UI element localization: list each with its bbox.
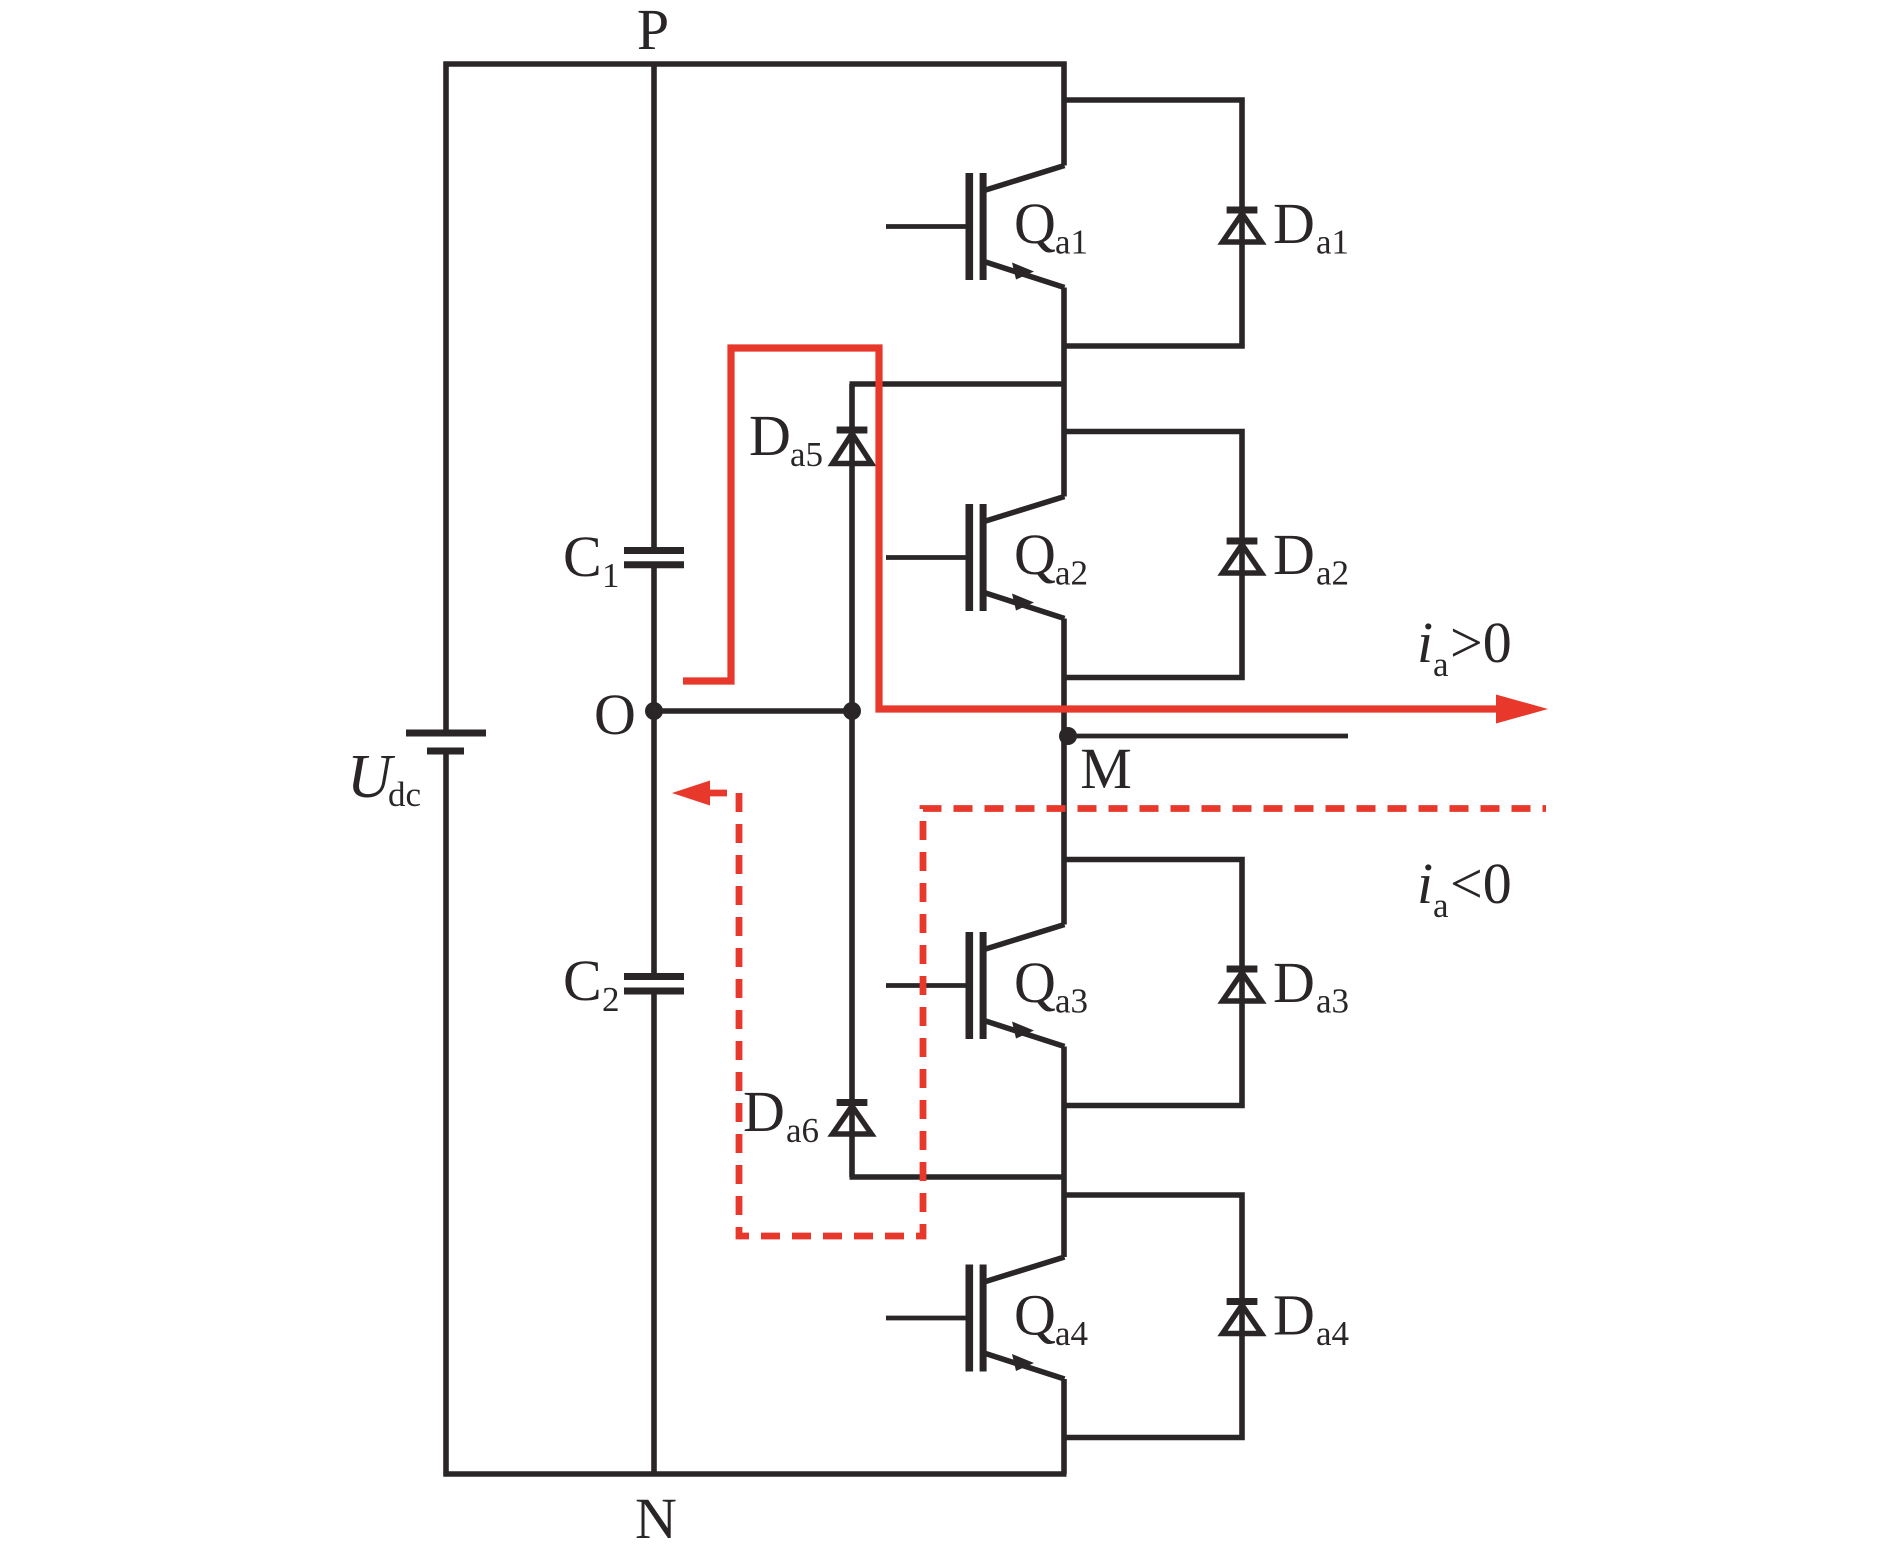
svg-text:>0: >0 bbox=[1450, 610, 1512, 675]
diode Da2 antiparallel loop bbox=[1064, 432, 1262, 678]
capacitor C1 bbox=[624, 551, 684, 565]
junction dot at clamp rail and O wire bbox=[843, 702, 861, 720]
diode Da5 bbox=[833, 430, 872, 464]
label Da2 bbox=[1273, 522, 1349, 593]
svg-text:a3: a3 bbox=[1055, 982, 1088, 1021]
svg-text:2: 2 bbox=[602, 980, 620, 1019]
battery Udc long plate bbox=[406, 730, 486, 737]
wire: main rail Qa1 emitter to Qa2 collector bbox=[1061, 288, 1067, 497]
transistor Qa4 (IGBT) bbox=[886, 1257, 1065, 1379]
svg-text:D: D bbox=[749, 403, 791, 468]
label Qa3 bbox=[1014, 950, 1088, 1021]
label C2 bbox=[563, 948, 620, 1019]
label Da4 bbox=[1273, 1283, 1349, 1354]
wire: top bus P rail bbox=[444, 61, 1067, 67]
wire: output line from node M bbox=[1065, 734, 1348, 739]
svg-text:D: D bbox=[743, 1079, 785, 1144]
wire: middle rail C1 to node O bbox=[651, 565, 657, 711]
svg-text:N: N bbox=[635, 1486, 677, 1549]
wire: left rail upper segment bbox=[443, 62, 449, 731]
wire: clamp rail vertical (Da5-Da6 leg) bbox=[849, 384, 855, 1177]
svg-text:Q: Q bbox=[1014, 1283, 1056, 1348]
diode Da6 bbox=[833, 1103, 872, 1135]
svg-text:C: C bbox=[563, 948, 602, 1013]
label Da5 bbox=[749, 403, 823, 474]
svg-text:D: D bbox=[1273, 191, 1315, 256]
wire: clamp bottom connection to main rail bbox=[850, 1174, 1065, 1180]
label Qa4 bbox=[1014, 1283, 1088, 1354]
label Qa1 bbox=[1014, 191, 1088, 262]
wire: clamp top connection to main rail bbox=[850, 381, 1065, 387]
diode Da3 antiparallel loop bbox=[1064, 860, 1262, 1106]
wire: main rail Qa2 emitter to Qa3 collector bbox=[1061, 619, 1067, 925]
svg-text:i: i bbox=[1417, 610, 1433, 675]
svg-text:a1: a1 bbox=[1055, 223, 1088, 262]
wire: middle rail C2 to N bus bbox=[651, 991, 657, 1474]
label ia<0 bbox=[1417, 851, 1512, 925]
wire: node O to clamp rail bbox=[654, 708, 852, 714]
svg-text:a2: a2 bbox=[1055, 554, 1088, 593]
wire: left rail lower segment bbox=[443, 754, 449, 1477]
wire: main rail P to Qa1 collector bbox=[1061, 62, 1067, 166]
label Da6 bbox=[743, 1079, 819, 1150]
svg-text:a5: a5 bbox=[790, 435, 823, 474]
svg-text:M: M bbox=[1080, 736, 1132, 801]
wire: main rail Qa3 emitter to Qa4 collector bbox=[1061, 1047, 1067, 1258]
red solid path: ia>0 current loop (O through Da5/Qa2 to M) bbox=[683, 348, 1548, 724]
wire: middle rail node O to C2 bbox=[651, 711, 657, 977]
svg-text:a1: a1 bbox=[1316, 223, 1349, 262]
wire: middle rail P to C1 bbox=[651, 62, 657, 551]
battery Udc short plate bbox=[427, 748, 464, 755]
label Qa2 bbox=[1014, 522, 1088, 593]
label C1 bbox=[563, 524, 620, 595]
red dashed path: ia<0 current loop (M through Qa3/Da6 to O) bbox=[672, 781, 1546, 1237]
svg-text:a2: a2 bbox=[1316, 554, 1349, 593]
svg-text:Q: Q bbox=[1014, 191, 1056, 256]
svg-text:a4: a4 bbox=[1316, 1314, 1349, 1353]
svg-text:a: a bbox=[1433, 645, 1449, 684]
node P label bbox=[637, 0, 669, 62]
label Udc bbox=[347, 743, 421, 814]
capacitor C2 bbox=[624, 977, 684, 992]
svg-text:D: D bbox=[1273, 1283, 1315, 1348]
svg-text:Q: Q bbox=[1014, 950, 1056, 1015]
svg-text:dc: dc bbox=[388, 775, 421, 814]
label Da3 bbox=[1273, 950, 1349, 1021]
wire: bottom bus N rail bbox=[444, 1471, 1067, 1477]
diode Da1 antiparallel loop bbox=[1064, 100, 1262, 346]
svg-text:C: C bbox=[563, 524, 602, 589]
svg-text:D: D bbox=[1273, 522, 1315, 587]
label ia>0 bbox=[1417, 610, 1512, 684]
node N label bbox=[635, 1486, 677, 1549]
transistor Qa1 (IGBT) bbox=[886, 166, 1065, 288]
svg-text:<0: <0 bbox=[1450, 851, 1512, 916]
node O label bbox=[594, 682, 636, 747]
diode Da4 antiparallel loop bbox=[1064, 1195, 1262, 1438]
node O junction dot bbox=[645, 702, 663, 720]
transistor Qa2 (IGBT) bbox=[886, 497, 1065, 619]
svg-text:a: a bbox=[1433, 886, 1449, 925]
svg-text:a6: a6 bbox=[786, 1111, 819, 1150]
node M junction dot bbox=[1059, 727, 1077, 745]
transistor Qa3 (IGBT) bbox=[886, 925, 1065, 1047]
svg-text:a4: a4 bbox=[1055, 1314, 1088, 1353]
label Da1 bbox=[1273, 191, 1349, 262]
svg-text:D: D bbox=[1273, 950, 1315, 1015]
node M label bbox=[1080, 736, 1132, 801]
svg-text:i: i bbox=[1417, 851, 1433, 916]
svg-text:1: 1 bbox=[602, 556, 620, 595]
svg-text:P: P bbox=[637, 0, 669, 62]
svg-text:Q: Q bbox=[1014, 522, 1056, 587]
svg-text:a3: a3 bbox=[1316, 982, 1349, 1021]
svg-text:O: O bbox=[594, 682, 636, 747]
wire: main rail Qa4 emitter to N bus bbox=[1061, 1379, 1067, 1474]
